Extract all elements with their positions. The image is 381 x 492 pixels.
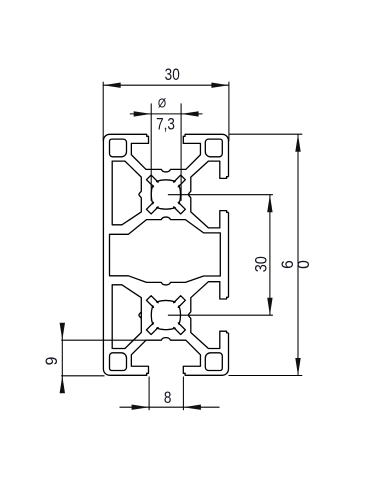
svg-text:9: 9 — [43, 357, 61, 366]
svg-text:0: 0 — [295, 260, 313, 269]
svg-text:Ø: Ø — [158, 96, 166, 111]
svg-text:30: 30 — [253, 256, 271, 272]
svg-text:8: 8 — [164, 389, 172, 408]
svg-text:7,3: 7,3 — [156, 115, 175, 134]
svg-text:30: 30 — [165, 66, 180, 85]
